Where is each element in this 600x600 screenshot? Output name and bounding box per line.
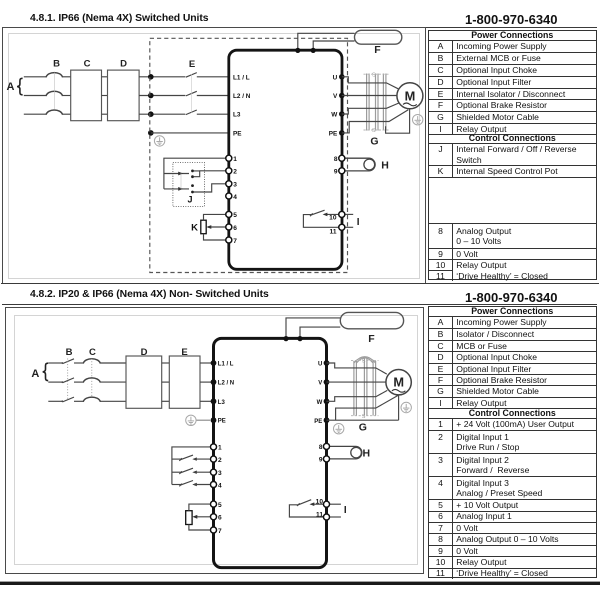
wire B to C phase 2 <box>62 95 70 97</box>
isolator E arm phase 2 <box>186 91 197 96</box>
isolator E label <box>189 59 195 70</box>
svg-text:I: I <box>344 505 347 516</box>
wire E to drive L2 <box>197 95 229 97</box>
terminal L1 dot bottom <box>211 360 234 367</box>
meter H label bottom <box>363 447 371 459</box>
terminal PE right dot <box>339 130 345 136</box>
svg-text:G: G <box>359 422 367 434</box>
terminal 4 bottom <box>211 482 223 490</box>
terminal 6 <box>226 224 238 232</box>
terminal V dot bottom <box>318 379 329 387</box>
wire C to D phase 3 <box>102 113 108 115</box>
wire E to drive L3 <box>200 400 214 402</box>
terminal 2 <box>226 168 238 176</box>
label V <box>333 93 338 100</box>
shield G tube bottom <box>354 357 376 416</box>
wire C to D phase 1 <box>100 362 126 364</box>
svg-text:G: G <box>370 136 378 148</box>
svg-text:W: W <box>331 112 338 119</box>
isolator E arm phase 1 <box>186 73 197 78</box>
fuse C phase 2 <box>83 378 100 383</box>
fuse C phase 1 <box>83 359 100 364</box>
relay I label <box>357 217 360 228</box>
svg-text:F: F <box>368 333 375 345</box>
svg-text:B: B <box>66 347 73 358</box>
junction dot PE on enclosure <box>148 130 154 136</box>
svg-text:C: C <box>89 347 96 358</box>
wire D to E phase 1 <box>162 362 170 364</box>
svg-text:S: S <box>372 128 376 134</box>
wire E to drive L1 <box>200 362 214 364</box>
wire terminal 7 to pot <box>204 234 229 240</box>
junction dot L2 on enclosure <box>148 93 154 99</box>
terminal V dot <box>339 93 345 99</box>
svg-text:A: A <box>7 81 15 93</box>
brake resistor F label bottom <box>368 333 375 345</box>
switch J contact dots <box>191 170 194 194</box>
terminal 7 <box>226 237 238 245</box>
pot K label <box>191 222 198 233</box>
shield G tube <box>367 74 386 131</box>
terminal L2 dot bottom <box>211 379 235 386</box>
wire input stub 3 <box>48 400 62 402</box>
terminal PE dot bottom <box>211 417 226 424</box>
svg-text:7: 7 <box>218 528 222 535</box>
fuse C phase 3 <box>83 397 100 402</box>
digital input switch 4 <box>172 481 214 487</box>
svg-text:F: F <box>374 44 381 56</box>
terminal 3 <box>226 181 238 189</box>
section 2 phone <box>465 290 558 305</box>
wire C to D phase 2 <box>102 95 108 97</box>
terminal U dot bottom <box>318 360 329 368</box>
shield bond at motor <box>386 109 410 133</box>
relay contact I arm bottom <box>297 500 311 506</box>
terminal 7 bottom <box>211 527 223 535</box>
switch J label <box>187 194 192 204</box>
isolator E arm phase 3 <box>186 110 197 115</box>
wire B to C phase 1 <box>62 76 70 78</box>
switch J link <box>180 174 182 189</box>
relay I return wire <box>303 215 341 228</box>
input choke C box <box>71 70 102 121</box>
shield S marks <box>372 72 376 134</box>
svg-text:1: 1 <box>233 156 237 163</box>
ground symbol shield end bottom <box>334 424 344 434</box>
brake resistor F <box>355 30 402 44</box>
svg-text:1: 1 <box>218 445 222 452</box>
wire C to D phase 1 <box>102 76 108 78</box>
input choke C label <box>84 58 91 69</box>
terminal circles overlay top <box>226 155 345 243</box>
wire input stub 2 <box>48 381 62 383</box>
fuse C label <box>89 347 96 358</box>
drive terminal label L2/N <box>233 93 251 100</box>
svg-text:11: 11 <box>330 229 337 236</box>
svg-text:S: S <box>362 414 366 420</box>
pot K wiper <box>206 225 229 229</box>
ground symbol near PE <box>154 136 164 146</box>
wire terminal 1 to J bus <box>164 158 229 189</box>
shield G label bottom <box>359 422 367 434</box>
drive terminal label PE left <box>233 130 242 137</box>
input filter E label <box>181 347 187 358</box>
switch J arm B <box>164 187 189 191</box>
terminal W dot bottom <box>317 398 330 406</box>
drive terminal label L1/L <box>233 74 250 81</box>
section 1 phone <box>465 12 558 27</box>
svg-text:S: S <box>372 72 376 78</box>
drive U2 body <box>214 338 327 567</box>
terminal PE right dot bottom <box>314 417 329 424</box>
terminal 9 bottom <box>319 456 330 464</box>
svg-text:W: W <box>317 400 323 406</box>
wire terminal 3 to J <box>194 184 229 192</box>
fuse B gang link <box>53 73 55 110</box>
svg-text:U: U <box>318 362 322 368</box>
relay I external stubs <box>342 214 353 227</box>
svg-text:6: 6 <box>218 515 222 522</box>
wire drive top to brake 2 <box>300 327 340 338</box>
switch J arm A <box>164 172 189 176</box>
pot K body <box>201 220 206 234</box>
terminal 6 bottom <box>211 514 223 522</box>
relay I return wire bottom <box>289 505 326 517</box>
input filter D label <box>120 58 127 69</box>
wire L3 input stub <box>24 113 47 115</box>
svg-text:J: J <box>187 194 192 204</box>
mid page rule <box>1 283 599 285</box>
fuse B phase 1 <box>46 73 63 78</box>
relay contact I fixed side bottom <box>310 502 327 506</box>
svg-text:PE: PE <box>218 419 226 425</box>
motor M2 <box>386 370 411 395</box>
page bottom thick bar <box>0 582 600 585</box>
junction dot brake 2 <box>297 336 302 341</box>
fuse B label <box>53 58 60 69</box>
svg-text:C: C <box>84 58 91 69</box>
svg-text:3: 3 <box>233 182 237 189</box>
svg-text:4: 4 <box>218 482 222 489</box>
svg-text:PE: PE <box>314 419 322 425</box>
wire PE to motor frame <box>342 110 409 133</box>
enclosure dashed box <box>150 38 348 272</box>
wire L2 input stub <box>24 95 47 97</box>
junction dot brake wire 2 <box>311 48 316 53</box>
ground symbol near motor bottom <box>401 402 411 412</box>
svg-text:L3: L3 <box>233 112 241 119</box>
wire E to drive L3 <box>197 113 229 115</box>
wire W to motor bottom <box>327 390 388 401</box>
section 2 title <box>30 289 269 300</box>
brake resistor F bottom <box>340 312 403 328</box>
wire terminal 7 to pot bottom <box>189 525 214 531</box>
terminal circles overlay bottom <box>211 443 330 533</box>
svg-text:L2 / N: L2 / N <box>218 381 234 387</box>
motor M1 <box>397 83 423 109</box>
svg-text:M: M <box>393 375 404 390</box>
wire B to C phase 3 <box>74 400 84 402</box>
svg-text:9: 9 <box>319 457 323 464</box>
svg-text:8: 8 <box>334 156 338 163</box>
svg-text:L2 / N: L2 / N <box>233 93 251 100</box>
label PE right <box>329 131 338 138</box>
wire terminal 5 to pot bottom <box>189 504 214 511</box>
terminal 2 bottom <box>211 456 223 464</box>
fuse B phase 3 <box>46 110 63 115</box>
supply brace bottom <box>43 363 49 380</box>
ground symbol near motor <box>413 115 423 125</box>
terminal 10 bottom <box>316 499 330 508</box>
motor frame bond bottom <box>398 395 400 420</box>
node A label <box>7 81 15 93</box>
pot body bottom <box>186 511 192 525</box>
isolator E gang link <box>191 74 193 113</box>
svg-text:A: A <box>31 368 39 380</box>
svg-text:5: 5 <box>218 502 222 509</box>
junction dot L1 on enclosure <box>148 74 154 80</box>
svg-text:V: V <box>333 93 338 100</box>
svg-text:H: H <box>363 447 371 459</box>
wire V to motor bottom <box>327 381 387 383</box>
terminal 5 <box>226 211 238 219</box>
isolator B arm phase 1 <box>61 359 74 364</box>
wire drive top to brake 1 <box>286 318 340 339</box>
input filter E box <box>169 356 200 408</box>
wire PE step to motor bottom <box>336 395 399 420</box>
wire U to motor bottom <box>327 363 387 374</box>
wire D to switch E phase 3 <box>139 113 185 115</box>
svg-text:7: 7 <box>233 238 237 245</box>
relay I label bottom <box>344 505 347 516</box>
TABLE 2 (bottom) <box>428 306 598 579</box>
wire B to C phase 2 <box>74 381 84 383</box>
terminal 10 <box>329 211 345 221</box>
svg-text:9: 9 <box>334 169 338 176</box>
input filter D box <box>108 70 140 121</box>
wire B to C phase 3 <box>62 113 70 115</box>
meter H label <box>381 159 389 171</box>
relay I external stubs bottom <box>327 504 341 517</box>
wire V to motor <box>342 95 397 97</box>
switch J dotted box <box>173 163 205 207</box>
wire C to D phase 3 <box>100 400 126 402</box>
shield G label <box>370 136 378 148</box>
supply brace <box>17 78 23 95</box>
node A label bottom <box>31 368 39 380</box>
isolator B arm phase 2 <box>61 378 74 383</box>
wire D to switch E phase 1 <box>139 76 185 78</box>
input choke D box <box>126 356 162 408</box>
wire E to drive L1 <box>197 76 229 78</box>
analog meter H bottom <box>330 446 362 459</box>
terminal U dot <box>339 74 345 80</box>
page rule section 2 <box>2 304 597 306</box>
bottom diagram outer border <box>6 308 424 574</box>
terminal 3 bottom <box>211 469 223 477</box>
svg-text:2: 2 <box>218 457 222 464</box>
fuse C gang link <box>91 359 93 397</box>
relay contact I arm <box>310 210 325 216</box>
wire L1 input stub <box>24 76 47 78</box>
terminal 11 bottom <box>316 511 329 520</box>
terminal L3 dot bottom <box>211 398 226 405</box>
top diagram outer border <box>3 28 426 284</box>
relay contact I fixed side <box>323 213 342 217</box>
svg-text:M: M <box>405 88 416 103</box>
drive U1 body <box>229 50 342 269</box>
wire drive top to brake resistor 2 <box>313 41 354 50</box>
section 1 title <box>30 13 208 24</box>
svg-text:I: I <box>357 217 360 228</box>
wire U to motor <box>342 77 398 89</box>
terminal 8 bottom <box>319 443 330 451</box>
junction dot brake wire 1 <box>295 48 300 53</box>
svg-text:L3: L3 <box>218 400 226 406</box>
svg-text:2: 2 <box>233 169 237 176</box>
brake resistor F label <box>374 44 381 56</box>
shield end dashes bottom <box>351 360 379 415</box>
svg-text:6: 6 <box>233 225 237 232</box>
terminal 4 <box>226 193 238 201</box>
wire D to E phase 3 <box>162 400 170 402</box>
label U <box>333 74 338 81</box>
digital input switch 2 <box>172 455 214 461</box>
junction dot L3 on enclosure <box>148 111 154 117</box>
wire W to motor <box>342 103 399 114</box>
svg-text:D: D <box>141 347 148 358</box>
svg-text:U: U <box>333 74 338 81</box>
TABLE 1 (top) <box>428 30 598 280</box>
svg-text:D: D <box>120 58 127 69</box>
svg-text:10: 10 <box>329 215 337 222</box>
label W <box>331 112 338 119</box>
svg-text:E: E <box>181 347 187 358</box>
wire PE to drive <box>151 132 229 134</box>
wire drive top to brake resistor 1 <box>298 33 355 50</box>
wire D to E phase 2 <box>162 381 170 383</box>
shield S marks bottom <box>362 359 366 420</box>
bottom diagram faint inner border <box>15 316 418 565</box>
top diagram faint inner border <box>9 34 420 279</box>
svg-text:5: 5 <box>233 212 237 219</box>
page rule top <box>2 27 597 29</box>
svg-text:PE: PE <box>329 131 338 138</box>
svg-text:8: 8 <box>319 444 323 451</box>
wire terminal 1 to DI bus <box>172 447 214 485</box>
terminal W dot <box>339 111 345 117</box>
svg-text:E: E <box>189 59 195 70</box>
svg-text:B: B <box>53 58 60 69</box>
terminal 1 bottom <box>211 444 223 452</box>
svg-text:3: 3 <box>218 470 222 477</box>
drive terminal label L3 <box>233 112 241 119</box>
svg-text:L1 / L: L1 / L <box>233 74 250 81</box>
wire terminal 5 to pot <box>204 214 229 220</box>
terminal 8 <box>334 155 345 163</box>
wire PE run bottom <box>327 419 399 421</box>
junction dot brake 1 <box>283 336 288 341</box>
wire C to D phase 2 <box>100 381 126 383</box>
digital input switch 3 <box>172 468 214 474</box>
shield G end dashes <box>364 74 391 130</box>
svg-text:H: H <box>381 159 389 171</box>
wire terminal 2 to J <box>194 171 229 177</box>
analog output meter H <box>345 158 375 171</box>
terminal 11 <box>330 224 345 235</box>
svg-text:L1 / L: L1 / L <box>218 362 234 368</box>
wire D to switch E phase 2 <box>139 95 185 97</box>
terminal 1 <box>226 155 238 163</box>
fuse B phase 2 <box>46 91 63 96</box>
wire input stub 1 <box>48 362 62 364</box>
terminal 9 <box>334 168 345 176</box>
isolator B label <box>66 347 73 358</box>
wire E to drive L2 <box>200 381 214 383</box>
svg-text:4: 4 <box>233 194 237 201</box>
svg-text:S: S <box>362 359 366 365</box>
pot wiper bottom <box>192 515 213 519</box>
svg-text:V: V <box>318 381 322 387</box>
isolator B gang link <box>67 359 69 401</box>
wire B to C phase 1 <box>74 362 84 364</box>
svg-text:K: K <box>191 222 198 233</box>
terminal 5 bottom <box>211 501 223 509</box>
ground symbol at PE bottom <box>186 415 210 425</box>
input choke D label <box>141 347 148 358</box>
isolator B arm phase 3 <box>61 397 74 402</box>
svg-text:PE: PE <box>233 130 242 137</box>
